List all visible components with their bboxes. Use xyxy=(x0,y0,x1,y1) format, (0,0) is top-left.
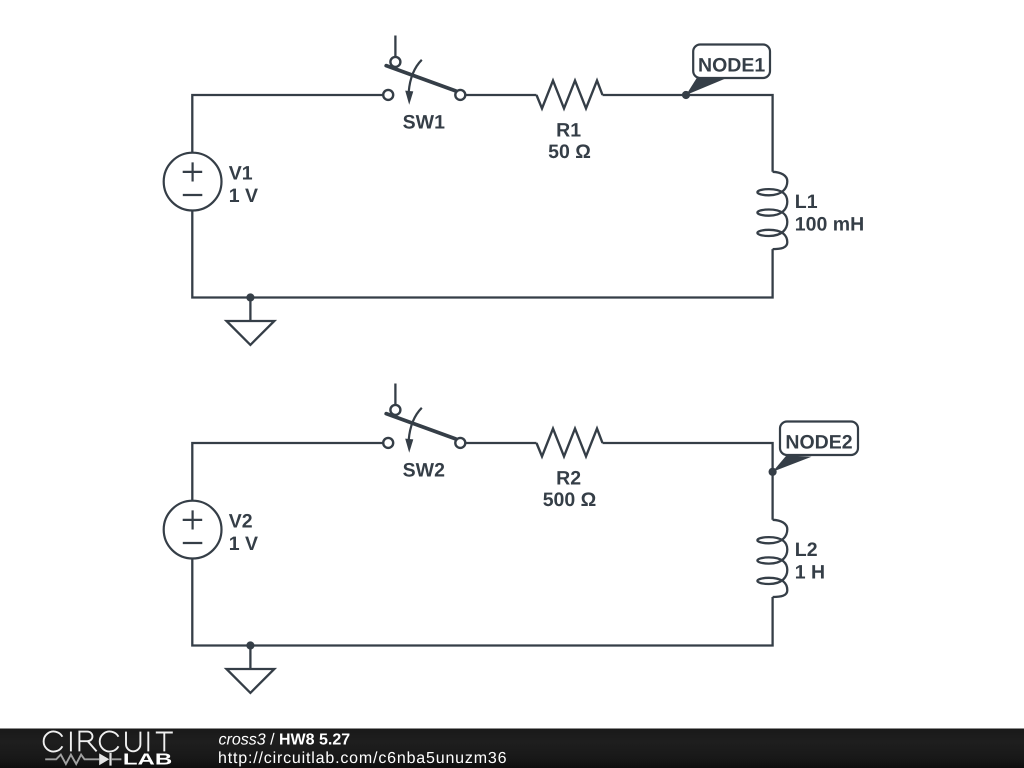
CircuitLab logo resistor-diode glyph xyxy=(45,753,121,766)
footer bar xyxy=(0,729,1024,768)
svg-text:R1: R1 xyxy=(556,119,581,141)
wire L1 bottom rail back to V1 xyxy=(192,210,772,297)
wire R2 to top-right corner down to L2 xyxy=(603,443,773,520)
wire L2 bottom rail back to V2 xyxy=(192,558,772,645)
svg-text:L2: L2 xyxy=(795,539,818,561)
wire top-left from V1 up and across to switch SW1 xyxy=(192,95,383,153)
wire switch to R2 xyxy=(465,442,536,444)
svg-text:500 Ω: 500 Ω xyxy=(543,489,597,511)
svg-text:V2: V2 xyxy=(229,510,253,532)
CircuitLab logo word CIRCUIT xyxy=(44,731,173,751)
voltage source V1 xyxy=(164,153,222,211)
svg-text:L1: L1 xyxy=(795,191,818,213)
ground xyxy=(227,293,275,345)
svg-text:NODE1: NODE1 xyxy=(698,55,765,77)
svg-text:1 V: 1 V xyxy=(229,185,258,207)
inductor L2 xyxy=(757,520,787,597)
svg-text:LAB: LAB xyxy=(123,752,172,768)
resistor R2 xyxy=(537,429,603,457)
svg-text:R2: R2 xyxy=(556,467,581,489)
svg-text:NODE2: NODE2 xyxy=(785,432,852,454)
inductor L1 xyxy=(757,172,787,249)
svg-text:cross3 / HW8 5.27: cross3 / HW8 5.27 xyxy=(219,732,351,749)
svg-text:SW2: SW2 xyxy=(403,459,445,481)
switch SW1 xyxy=(383,36,465,105)
svg-text:http://circuitlab.com/c6nba5un: http://circuitlab.com/c6nba5unuzm36 xyxy=(218,750,507,767)
svg-text:100 mH: 100 mH xyxy=(795,213,864,235)
ground xyxy=(227,641,275,693)
wire R1 to top-right corner down to L1 xyxy=(603,95,773,172)
svg-text:V1: V1 xyxy=(229,162,253,184)
svg-text:1 H: 1 H xyxy=(795,561,825,583)
resistor R1 xyxy=(537,81,603,109)
svg-text:1 V: 1 V xyxy=(229,533,258,555)
node NODE1 junction dot xyxy=(682,91,690,99)
voltage source V2 xyxy=(164,501,222,559)
wire top-left from V2 up and across to switch SW2 xyxy=(192,443,383,501)
node NODE1 callout xyxy=(686,45,770,96)
node NODE2 junction dot xyxy=(769,468,777,476)
switch SW2 xyxy=(383,384,465,453)
svg-text:50 Ω: 50 Ω xyxy=(548,141,591,163)
node NODE2 callout xyxy=(773,422,858,472)
wire switch to R1 xyxy=(465,94,536,96)
svg-text:SW1: SW1 xyxy=(403,111,445,133)
